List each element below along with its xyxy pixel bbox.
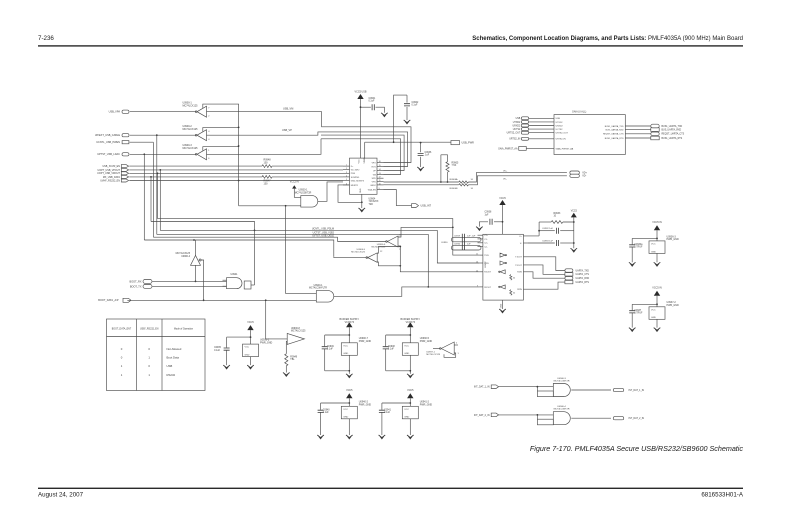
U0941-2 bypass VCC wire (409, 398, 411, 406)
svg-text:URXD2: URXD2 (556, 125, 564, 127)
wire U0900-6 input (338, 241, 387, 243)
AND gate U0930-1 (301, 196, 318, 208)
svg-text:GND: GND (343, 353, 348, 355)
wire T1OUT (523, 257, 565, 271)
wire U0932 VCC pin (502, 205, 504, 234)
U0932 internal buffer R2 (500, 285, 505, 289)
wire C0902 upper (406, 95, 408, 103)
svg-text:T1IN: T1IN (484, 255, 489, 257)
svg-text:UCTS2: UCTS2 (556, 129, 564, 131)
truth table col divider 2 (161, 319, 163, 391)
svg-text:C0933 1uF: C0933 1uF (542, 240, 553, 242)
svg-text:13: 13 (379, 173, 381, 175)
svg-text:BOOT_DATA_ENT: BOOT_DATA_ENT (112, 328, 132, 331)
connector MX_USB_DATA (121, 175, 128, 178)
connector UARTA_RTS (565, 280, 573, 283)
capacitor C0938 (490, 219, 492, 225)
connector VD+ (570, 171, 580, 174)
U0937-2 bypass bypass cap (629, 311, 635, 313)
svg-text:GAIA_PWRST_AA: GAIA_PWRST_AA (556, 147, 574, 150)
svg-text:BOOT_TX: BOOT_TX (130, 285, 142, 288)
ground C0936 (417, 167, 424, 171)
wire USB_XCVR_EN seg1 (129, 165, 262, 167)
wire U0904 pin VD_VMO (343, 169, 350, 171)
U0930-5 bypass VCC wire (409, 327, 411, 343)
svg-text:VCC: VCC (359, 159, 361, 164)
U0940-2 bypass cap ground (317, 435, 324, 439)
wire C0936 upper (420, 143, 422, 153)
U0937-2 bypass cap ground (629, 328, 636, 332)
svg-text:9: 9 (477, 285, 478, 287)
junction C0938 tap (502, 221, 504, 223)
U0936-2 bypass VCC wire (250, 330, 252, 344)
U0936-2 bypass box (243, 344, 259, 357)
U0941-2 bypass VCC symbol (407, 393, 413, 398)
U0937-2 bypass junction (656, 303, 658, 305)
wire U0937-1 feedback (444, 353, 456, 357)
wire U0900-4 bottom (195, 265, 197, 281)
wire C0936 lower (420, 157, 422, 167)
connector UARTA_RXD (565, 277, 573, 280)
U0930-5 bypass gnd wire (409, 355, 411, 374)
wire VD- seg1 (384, 184, 459, 186)
svg-text:URXD2: URXD2 (513, 125, 522, 127)
svg-text:C0930: C0930 (441, 242, 448, 244)
junction trunk lower (238, 180, 240, 182)
U0941-2 bypass cap wire upper (381, 403, 383, 410)
svg-text:BOOT_RX: BOOT_RX (130, 280, 142, 283)
wire tap rail3 (152, 142, 154, 237)
svg-text:Not Allowed: Not Allowed (167, 347, 182, 351)
wire U0904 pin VPO (377, 162, 384, 164)
wire C0901 to gnd (376, 107, 385, 113)
U0930-5 bypass VCC symbol (407, 322, 413, 327)
wire tap rail1 (159, 170, 161, 231)
junction VCC rail (573, 221, 575, 223)
svg-text:RS232: RS232 (167, 373, 176, 377)
wire U0932 pin R2OUT stub (479, 286, 483, 288)
svg-text:USB_VM: USB_VM (283, 107, 293, 110)
wire R1IN (523, 272, 565, 278)
connector INT_DAT_1_IN input (491, 385, 498, 389)
wire U0940-3 in2 drop (536, 387, 538, 391)
connector BOOT_RX (143, 280, 152, 284)
wire rail UCNTL_USB_PDN (160, 230, 479, 263)
U0940-3 input loop (537, 391, 553, 397)
svg-text:9: 9 (379, 188, 380, 190)
U0932 internal buffer T1 (500, 253, 505, 257)
wire U0940-4 in2 drop (536, 415, 538, 419)
wire U0900-4 output (201, 260, 204, 300)
connector UCNTL_USB_PWEN (122, 141, 129, 144)
wire GAIA out BUS1_UARTA_RTS (625, 137, 651, 139)
svg-text:VCC2 IN: VCC2 IN (290, 182, 299, 184)
capacitor C0936 (418, 153, 424, 155)
wire BOOT_TX (152, 285, 226, 287)
resistor R0906A (459, 181, 469, 183)
svg-text:4: 4 (346, 175, 347, 177)
wire U0900-3 enable pin (203, 147, 239, 151)
svg-text:MDSTR: MDSTR (351, 185, 359, 187)
connector USB_INT (412, 204, 419, 208)
U0932 internal buffer T2 (500, 261, 505, 265)
wire U0904 pin MDSTR (343, 184, 350, 186)
U0900-4 output bubble (199, 259, 201, 261)
wire net USB_VP lower (207, 132, 408, 167)
wire U0904 pin SPD (377, 177, 384, 179)
svg-text:VCC5 IN: VCC5 IN (652, 221, 662, 224)
footer rule (38, 488, 743, 489)
junction trunk upper (238, 127, 240, 129)
U0900-7 bypass gnd wire (348, 355, 350, 374)
svg-text:BUS_UARTA_RXD: BUS_UARTA_RXD (662, 129, 682, 132)
svg-text:10: 10 (379, 183, 381, 185)
wire GAIA in UTXD2 (529, 121, 554, 123)
U0936-3 bypass VCC wire (656, 230, 658, 241)
wire U0940-4 output (571, 417, 611, 419)
wire U0940-3 in1 (499, 386, 554, 388)
U0900-7 bypass cap wire lower (324, 349, 326, 371)
U0936-3 bypass ground (654, 262, 661, 266)
svg-text:URTS2_OUT: URTS2_OUT (556, 133, 569, 135)
U0900-7 bypass VCC wire (348, 327, 350, 343)
U0941-2 bypass bypass cap (379, 410, 385, 412)
wire VD- seg2 (468, 176, 567, 185)
wire VCC gnd rail (573, 222, 575, 248)
junction U0940-1 in1 tap (285, 205, 287, 207)
wire U0904 pin PDN (343, 172, 350, 174)
junction U0900-4 to BOOT_DATA (203, 299, 205, 301)
svg-text:C2-: C2- (484, 246, 488, 248)
wire U0941 in2 stub (223, 285, 227, 287)
svg-text:VCC5 USB: VCC5 USB (355, 91, 367, 94)
wire net spare riser (321, 139, 401, 175)
wire R2IN (523, 282, 565, 289)
junction C0932 (538, 230, 540, 232)
svg-text:14: 14 (379, 169, 381, 171)
AND gate U0941 (227, 278, 243, 289)
svg-text:12: 12 (476, 270, 478, 272)
wire U0932 pin T2IN stub (479, 262, 483, 264)
svg-text:VCC: VCC (343, 409, 348, 411)
svg-text:VDA_EN: VDA_EN (368, 188, 377, 191)
svg-text:VPWR: VPWR (364, 157, 366, 164)
wire U0937-1 pin a (454, 344, 458, 346)
svg-text:2: 2 (346, 168, 347, 170)
svg-text:BUS1_UARTA_TXD: BUS1_UARTA_TXD (605, 125, 624, 128)
svg-text:5k: 5k (513, 293, 515, 295)
wire U0904 pin GND_MOMYS (343, 180, 350, 182)
svg-text:T1OUT: T1OUT (515, 257, 522, 259)
ground U0904 (359, 208, 366, 212)
junction R0905 VD+ (447, 181, 449, 183)
ground VCC rail (571, 248, 578, 252)
U0930-5 bypass box (402, 343, 418, 356)
wire U0941 in1 stub (223, 279, 227, 281)
junction rail UCTST to R2OUT (427, 286, 429, 288)
wire U0930-1 out (318, 182, 343, 201)
svg-text:V-: V- (520, 243, 522, 245)
U0900-7 bypass cap top wire (325, 334, 350, 336)
junction U0904 gnd loop (361, 201, 363, 203)
svg-text:August 24, 2007: August 24, 2007 (38, 492, 84, 499)
wire MX_USB_DATA seg2 (272, 176, 343, 178)
wire C0932 right (560, 230, 574, 232)
svg-text:UTXD2: UTXD2 (556, 122, 564, 124)
U0930-5 bypass cap return wire (386, 370, 411, 372)
U0936-3 bypass gnd wire (656, 253, 658, 262)
svg-text:UOPT_USB_VMOUT: UOPT_USB_VMOUT (97, 172, 120, 175)
wire U0904 pin SUSPND (343, 176, 350, 178)
wire rail UBOOT (151, 222, 255, 286)
svg-text:GND: GND (360, 188, 362, 193)
resistor R0906B (459, 184, 469, 186)
svg-text:INT_DAT_1_IN: INT_DAT_1_IN (629, 389, 645, 392)
svg-text:VD-: VD- (582, 175, 586, 178)
wire U0932 pin T1IN stub (479, 254, 483, 256)
wire C0933 right (560, 242, 574, 244)
svg-text:R1IN: R1IN (517, 272, 522, 274)
svg-text:7-236: 7-236 (38, 35, 54, 42)
capacitor C0929 plates (462, 234, 464, 242)
U0930-5 bypass cap wire lower (385, 349, 387, 371)
U0900-7 bypass junction (348, 334, 350, 336)
U0937-2 bypass ground (654, 328, 661, 332)
wire U0937-1 in (433, 348, 440, 350)
wire U0900-8 input (266, 300, 288, 339)
svg-text:USB_VP: USB_VP (282, 129, 292, 132)
wire MX_USB_DATA seg1 (129, 176, 262, 178)
junction trunk mid (238, 145, 240, 147)
U0900-7 bypass cap return junction (348, 370, 350, 372)
connector INT_DAT_1_IN (613, 388, 624, 391)
wire rail T1IN net (158, 219, 480, 256)
wire rail UCTST_USB_V1B2 (157, 234, 429, 287)
U0940-2 bypass cap wire lower (320, 413, 322, 436)
resistor R0949 (285, 354, 288, 366)
U0941-2 bypass gnd wire (409, 419, 411, 435)
connector BOOT_DATA_AP (123, 298, 131, 302)
wire U0932 GND pin (502, 300, 504, 309)
VCC2_IN symbol (292, 185, 296, 188)
U0936-3 bypass box (649, 241, 665, 254)
wire rail UBOOT_DATA_EN (144, 240, 333, 256)
IC U0932 body (483, 234, 524, 300)
U0937-2 bypass box (649, 307, 665, 320)
U0936-3 bypass bypass cap (629, 245, 635, 247)
U0936-2 bypass cap ground (223, 365, 230, 369)
wire U0900-1 enable pin (203, 104, 239, 108)
wire VD+ seg2 (468, 173, 567, 182)
svg-text:INT_DAT_2_IN: INT_DAT_2_IN (474, 414, 490, 417)
wire VCC2 to U0930-1 (294, 189, 301, 198)
junction U0940-3 in2 (537, 386, 539, 388)
svg-text:11: 11 (379, 180, 381, 182)
wire GAIA out BUS_UARTA_RXD (625, 129, 651, 131)
wire T2OUT (523, 265, 565, 274)
ground C0938 (476, 227, 483, 231)
svg-text:USB_VPA: USB_VPA (109, 111, 121, 114)
svg-text:MX_USB_DATA: MX_USB_DATA (103, 176, 121, 179)
svg-text:Mode of Operation: Mode of Operation (174, 328, 194, 331)
svg-text:VCC: VCC (404, 409, 409, 411)
connector USB_XCVR_EN (121, 165, 128, 168)
capacitor C0930 plates (462, 242, 464, 250)
junction LDAC tap (143, 153, 145, 155)
junction R1OUT riser top (399, 246, 401, 248)
capacitor C0929 loop (451, 237, 481, 241)
svg-text:GAIA (U ALL): GAIA (U ALL) (572, 111, 587, 114)
wire R0905 bottom (447, 172, 449, 182)
svg-text:5k: 5k (513, 278, 515, 280)
U0940-2 bypass VCC symbol (346, 393, 352, 398)
svg-text:GND: GND (501, 303, 503, 308)
wire USB_XCVR_EN seg2 (272, 165, 343, 167)
svg-text:UCNTL_USB_PWEN: UCNTL_USB_PWEN (96, 141, 120, 144)
wire U0904 GND pin (361, 194, 363, 208)
svg-text:C0932 1uF: C0932 1uF (542, 228, 553, 230)
svg-text:URTS2_OUT: URTS2_OUT (507, 133, 521, 135)
wire C0932 left (539, 230, 555, 232)
U0936-3 bypass cap wire lower (631, 247, 633, 262)
VCC5_USB symbol (357, 94, 363, 99)
wire U0940-1 in1 (286, 206, 317, 294)
wire UP_EXT_USB_CABLE to U0900-2 (130, 134, 196, 136)
connector GAIA_PWRST_AA (519, 147, 527, 151)
resistor R0905 (446, 162, 449, 172)
wire U0904 pin VDA_EN (377, 189, 384, 191)
wire trunk net (238, 104, 240, 206)
U0940-2 bypass ground (346, 435, 353, 439)
svg-text:RCV: RCV (372, 166, 377, 168)
connector INT_DAT_2_IN input (491, 413, 498, 417)
U0937-2 bypass VCC symbol (654, 291, 660, 296)
truth table header divider (107, 336, 206, 338)
svg-text:12: 12 (379, 177, 381, 179)
wire R0905 top (441, 155, 448, 162)
U0941-2 bypass cap ground (379, 435, 386, 439)
wire R0933 to VCC (563, 217, 574, 222)
wire BOOT_DATA_AP (127, 299, 316, 301)
svg-text:VCC5: VCC5 (346, 389, 353, 392)
resistor R0933 (551, 221, 563, 224)
wire rail UVTST_USB_OELE (153, 237, 337, 241)
junction T1IN enable (452, 227, 454, 229)
wire net U0900-3 out (207, 139, 322, 155)
svg-text:5: 5 (346, 179, 347, 181)
capacitor C0901 (372, 104, 374, 110)
wire U0904 pin VPU (377, 181, 384, 183)
wire U0904 VPWR pin (364, 142, 366, 158)
svg-text:UVTST_USB_OELE: UVTST_USB_OELE (312, 235, 334, 238)
buffer U0900-8 (287, 333, 304, 344)
wire R0905 left leg (440, 155, 442, 182)
svg-text:10: 10 (476, 262, 478, 264)
svg-text:UARTA_RTS: UARTA_RTS (576, 281, 590, 284)
svg-text:R2IN: R2IN (517, 289, 522, 291)
svg-text:VCC: VCC (245, 347, 250, 349)
svg-text:R2OUT: R2OUT (484, 287, 492, 289)
svg-text:VD_VMO: VD_VMO (351, 170, 360, 172)
U0941 output box (244, 281, 251, 289)
U0900-7 bypass box (341, 343, 357, 356)
U0936-2 bypass gnd wire (250, 357, 252, 366)
svg-text:USB_PWR: USB_PWR (462, 142, 475, 145)
svg-text:UCTS2: UCTS2 (513, 129, 521, 131)
connector VD- (570, 174, 580, 177)
svg-text:VD+: VD+ (503, 170, 508, 172)
U0940-2 bypass junction (348, 402, 350, 404)
U0941-2 bypass box (402, 406, 418, 419)
connector GAIA in UTXD2 (521, 120, 529, 123)
svg-text:11: 11 (476, 254, 478, 256)
svg-text:GND: GND (651, 251, 656, 253)
wire USB_INT (384, 190, 412, 206)
ground U0932 (499, 309, 506, 313)
connector UPTST_USB_LDAC (122, 153, 129, 156)
U0900-7 bypass bypass cap (322, 347, 328, 349)
junction CABLE tap (156, 134, 158, 136)
svg-text:USB: USB (167, 364, 173, 368)
svg-text:GND_MOMYS: GND_MOMYS (351, 180, 365, 182)
wire GAIA out REQST_UARTA_CTS (625, 133, 651, 135)
U0941-2 bypass cap top wire (382, 402, 410, 404)
U0941-2 bypass cap wire lower (381, 413, 383, 436)
junction C0933 (573, 242, 575, 244)
svg-text:C1-: C1- (484, 239, 488, 241)
svg-text:INT_DAT_1_IN: INT_DAT_1_IN (474, 386, 490, 389)
AND gate U0940-1 (316, 291, 334, 303)
wire GAIA out BUS1_UARTA_TXD (625, 125, 651, 127)
svg-text:T2IN: T2IN (484, 263, 489, 265)
junction U0900-4 out (195, 281, 197, 283)
junction rail buffer tap (193, 239, 195, 241)
wire U0904 pin GND2 (377, 184, 384, 186)
U0937-2 bypass gnd wire (656, 319, 658, 327)
svg-text:URTS2_IN: URTS2_IN (556, 139, 567, 141)
wire R1OUT riser (400, 265, 479, 272)
U0930-5 bypass cap wire upper (385, 335, 387, 346)
svg-text:BUS1_UARTA_RTS: BUS1_UARTA_RTS (662, 137, 683, 140)
connector REQST_UARTA_CTS (651, 132, 659, 136)
truth table col divider 1 (136, 319, 138, 391)
wire R0949 gnd (285, 366, 287, 373)
wire U0941 output (251, 284, 255, 286)
wire VPWR riser (365, 95, 407, 142)
wire U0932 V+ pin (523, 235, 539, 237)
U0900-7 bypass cap wire upper (324, 335, 326, 346)
wire U0904 pin VP (377, 170, 384, 172)
U0930-5 bypass bypass cap (383, 347, 389, 349)
wire GAIA in URXD2 (529, 125, 554, 127)
svg-text:USB: USB (556, 118, 561, 120)
U0940-2 bypass cap top wire (321, 402, 350, 404)
svg-text:15: 15 (379, 165, 381, 167)
svg-text:GND: GND (343, 417, 348, 419)
wire U0932 pin R1OUT stub (479, 271, 483, 273)
U0940-2 bypass bypass cap (318, 410, 324, 412)
U0936-2 bypass cap wire lower (226, 350, 228, 365)
svg-text:Schematics, Component Location: Schematics, Component Location Diagrams,… (472, 36, 743, 42)
wire GAIA in URTS2_IN (529, 138, 554, 140)
wire U0900-8 bias (285, 342, 288, 354)
svg-text:VD-: VD- (503, 178, 507, 180)
resistor R0948 (262, 165, 272, 168)
U0937-2 bypass cap wire lower (631, 313, 633, 328)
U0930-5 bypass ground (407, 374, 414, 378)
junction rail UBOOT cross (254, 230, 256, 232)
capacitor C0932 (556, 228, 558, 234)
